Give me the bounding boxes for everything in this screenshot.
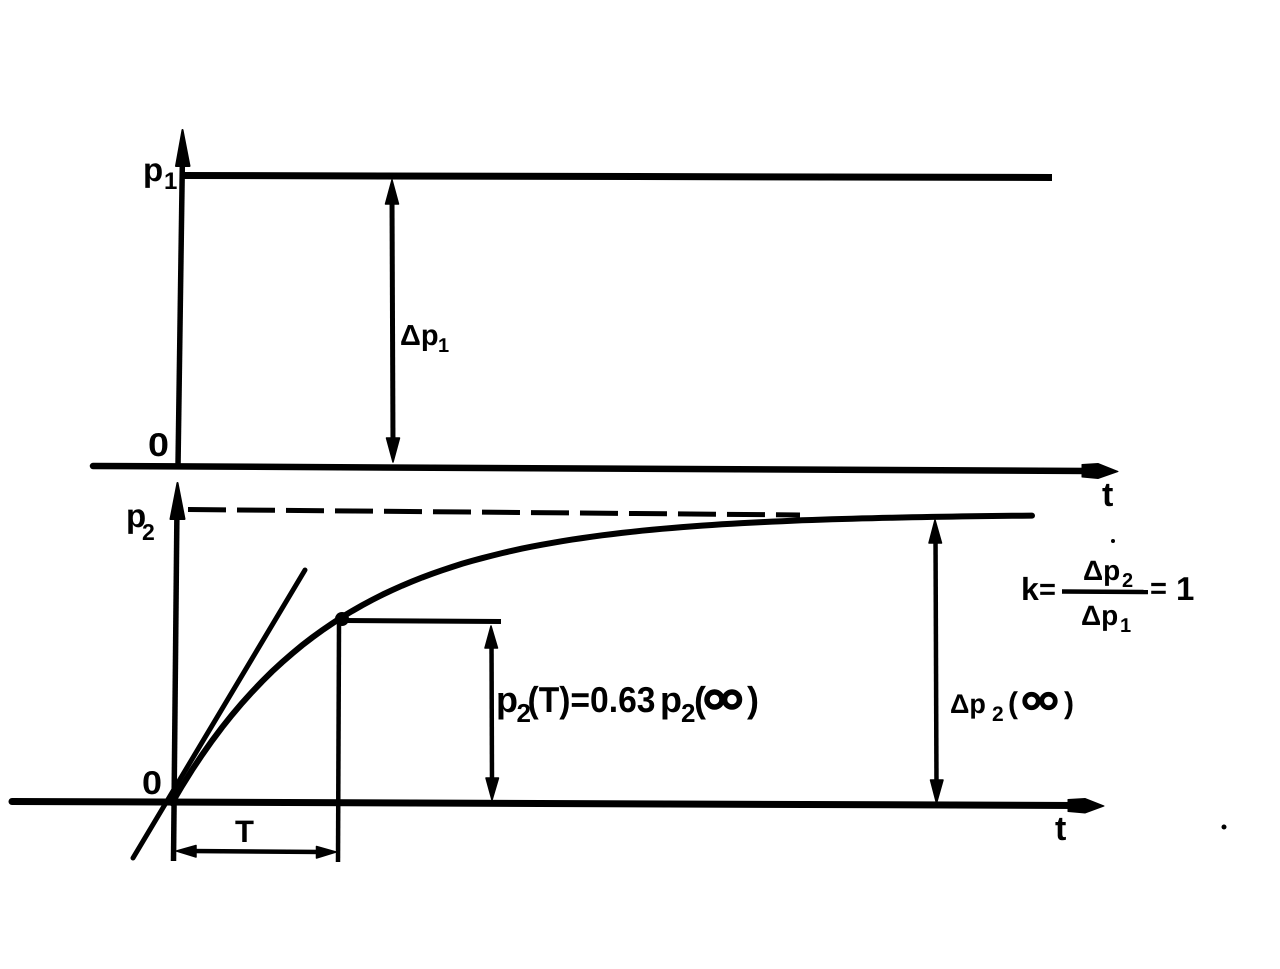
svg-text:0: 0 [148, 426, 169, 463]
p1 level line (step input) [182, 176, 1052, 178]
top horizontal axis (t) with arrowhead [93, 464, 1118, 479]
p2(T) measure arrow (double headed vertical) [485, 626, 499, 800]
svg-text:2: 2 [142, 519, 155, 545]
bottom vertical axis p2 (extends below x-axis) [171, 483, 185, 861]
p2(T) = 0.63 p2(inf) label [496, 679, 759, 728]
marker dot at t = T on curve [335, 612, 349, 626]
svg-text:Δp: Δp [950, 689, 986, 719]
bottom horizontal axis (t) with arrowhead [12, 799, 1104, 814]
svg-text:(T)=0.63: (T)=0.63 [528, 679, 656, 720]
svg-text:): ) [1064, 687, 1074, 720]
svg-text:Δp: Δp [400, 320, 439, 352]
svg-text:p: p [143, 151, 163, 188]
svg-text:1: 1 [164, 168, 177, 195]
svg-text:T: T [235, 814, 254, 849]
svg-text:Δp: Δp [1081, 600, 1118, 631]
delta-p2(inf) measure arrow (double headed vertical) [929, 520, 943, 803]
speck artifact near formula [1111, 539, 1115, 543]
T measure arrow below axis (double headed horizontal) [177, 846, 337, 859]
vertical line at t = T (extends below x-axis) [338, 624, 339, 862]
horizontal line from curve point at T [344, 621, 501, 622]
svg-text:1: 1 [1176, 570, 1194, 607]
svg-text:2: 2 [1122, 570, 1133, 592]
top vertical axis p1 [176, 130, 190, 466]
svg-text:k: k [1021, 571, 1039, 607]
tangent line at origin [133, 570, 305, 858]
svg-text:Δp: Δp [1083, 555, 1120, 586]
svg-text:=: = [1150, 573, 1167, 605]
svg-text:p: p [496, 679, 518, 720]
delta-p2(inf) label [950, 687, 1074, 726]
svg-text:2: 2 [992, 703, 1004, 726]
svg-text:0: 0 [142, 764, 162, 801]
speck artifact below right of axis [1222, 825, 1227, 830]
svg-text:(: ( [1008, 687, 1018, 720]
svg-text:t: t [1055, 810, 1066, 848]
svg-text:p: p [660, 679, 682, 720]
svg-text:): ) [747, 679, 759, 720]
svg-text:=: = [1039, 574, 1056, 606]
svg-text:1: 1 [1120, 615, 1131, 637]
delta-p1 measure arrow (double headed vertical) [386, 180, 400, 462]
dashed asymptote line at p2(inf) [188, 510, 800, 516]
formula k = dp2/dp1 = 1 [1021, 555, 1194, 637]
svg-text:1: 1 [438, 335, 449, 357]
svg-text:t: t [1102, 476, 1113, 514]
exponential response curve p2(t) [172, 516, 1032, 803]
svg-text:(: ( [694, 679, 706, 720]
